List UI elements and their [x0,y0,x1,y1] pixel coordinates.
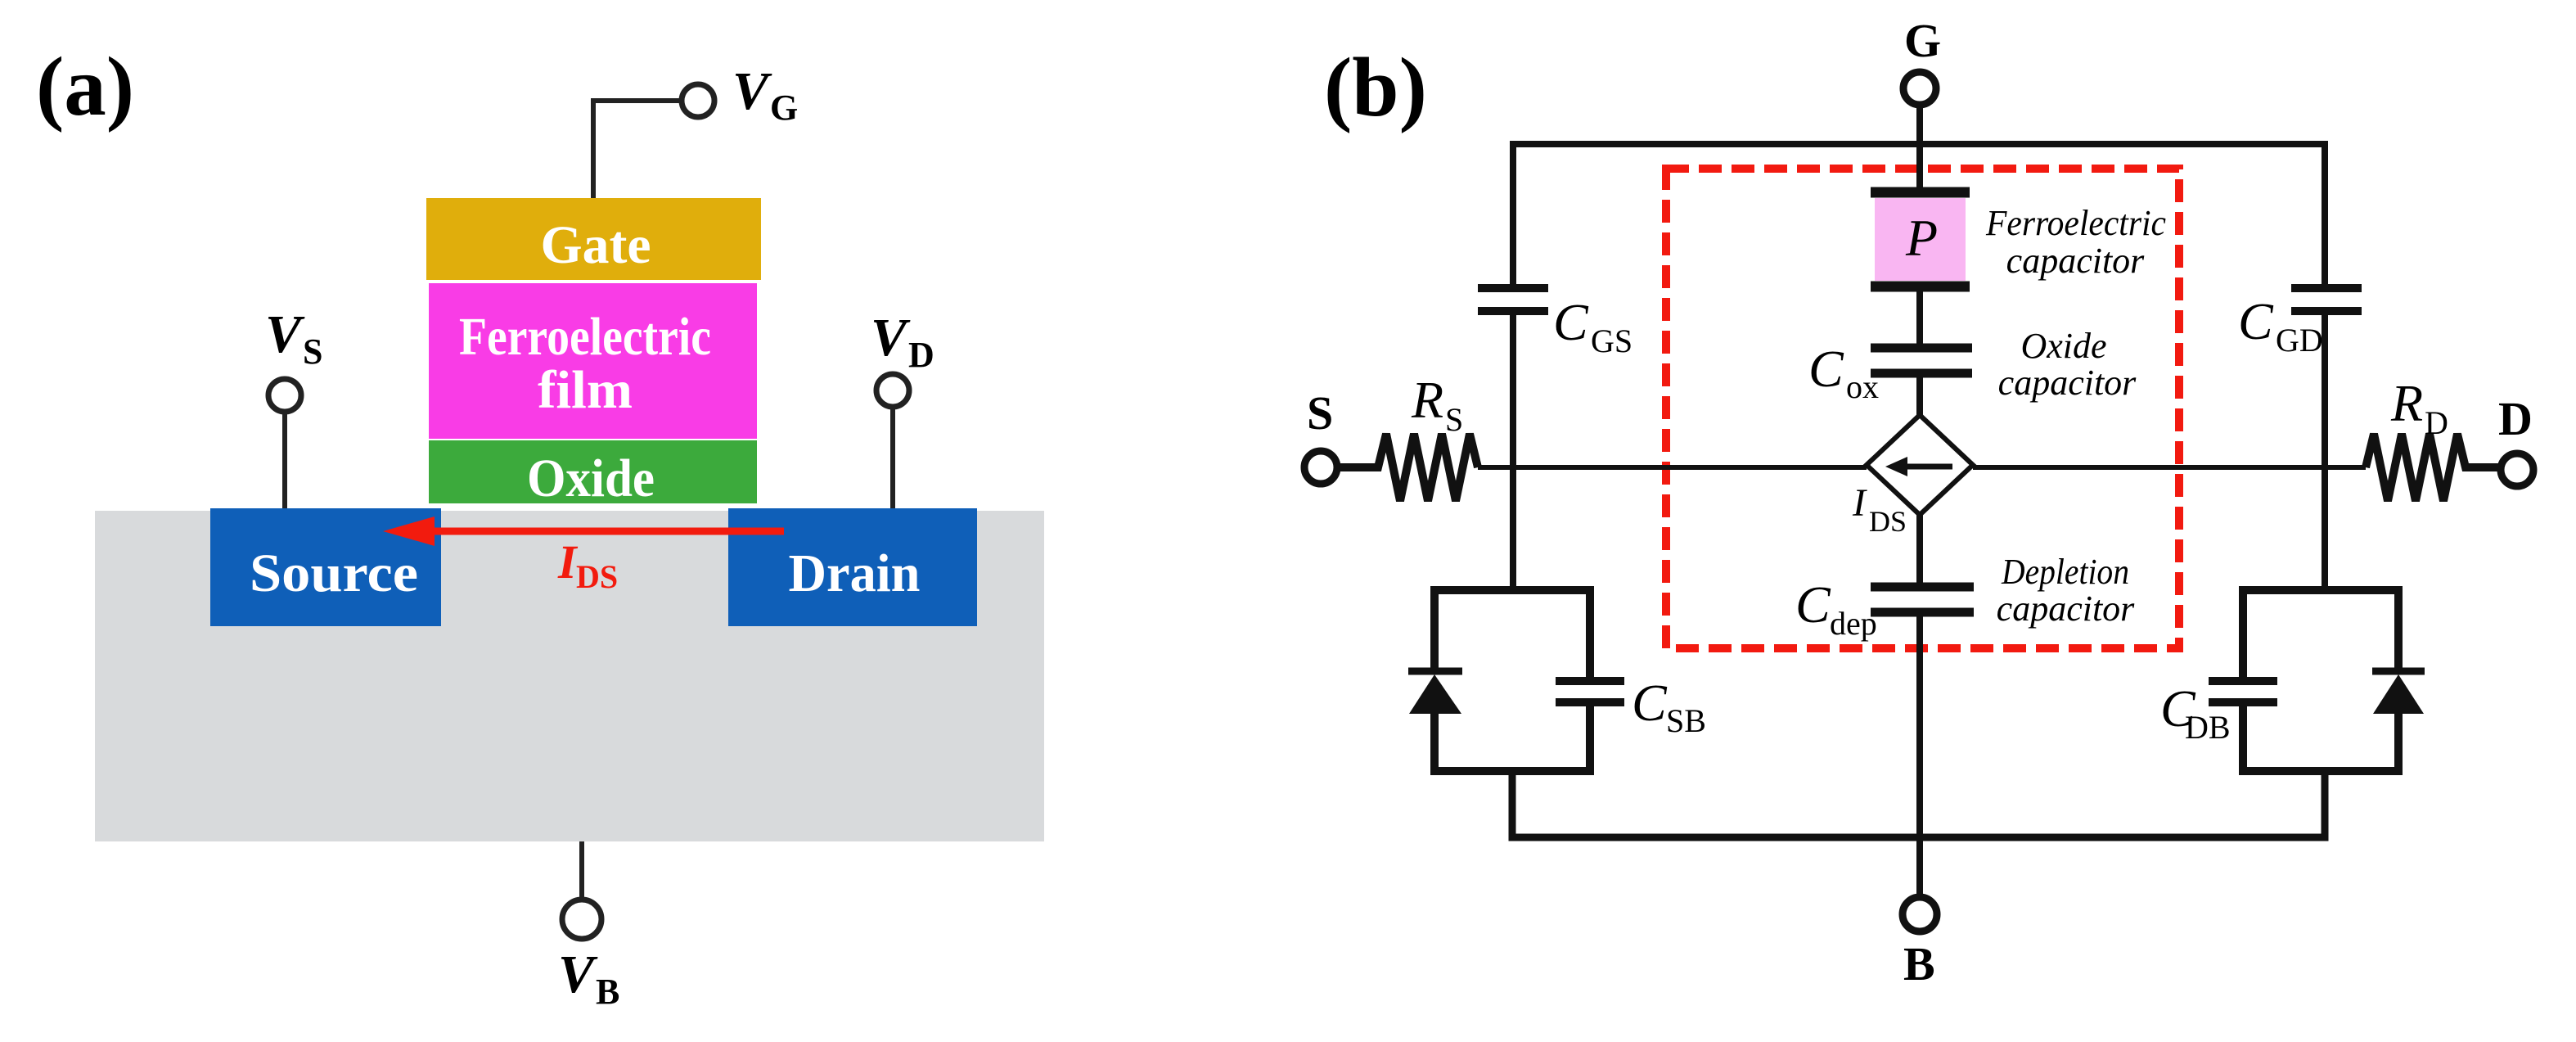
DB block outline [2243,590,2398,771]
ferroelectric capacitor plates [1871,192,1970,286]
wire top rail [1513,144,2325,285]
label Ferroelectric capacitor [1985,203,2166,281]
svg-text:V: V [871,308,911,368]
drain region [728,508,977,626]
svg-text:B: B [1903,937,1935,990]
label Oxide capacitor [1998,326,2137,403]
svg-text:S: S [1445,401,1463,438]
svg-text:D: D [908,335,934,375]
svg-text:C: C [1632,674,1668,732]
wire VG lead [593,101,682,201]
terminal G [1903,14,1941,105]
svg-text:(a): (a) [36,40,134,133]
svg-text:C: C [1808,340,1844,398]
svg-text:Oxide: Oxide [2020,326,2106,366]
svg-text:ox: ox [1846,368,1879,405]
capacitor Cox [1808,340,1972,405]
svg-text:C: C [1795,575,1831,634]
ferroelectric film layer [429,283,757,439]
svg-text:capacitor: capacitor [1997,589,2136,629]
wire main rail D side [1973,465,2366,470]
capacitor CSB [1556,674,1706,739]
wire VB lead [579,841,584,900]
wire Cdep to bottom rail and B [1916,616,1923,899]
wire left vertical lower [1510,314,1516,591]
svg-text:C: C [1553,293,1589,351]
gate layer [426,198,761,280]
wire VS lead [282,412,287,508]
substrate [95,511,1044,841]
terminal D [2498,392,2533,486]
terminal B [1903,897,1937,990]
svg-text:G: G [770,88,798,128]
wire main rail S side [1478,465,1867,470]
svg-text:V: V [265,304,305,364]
terminal VS [265,304,322,412]
diode SB [1408,671,1462,714]
svg-text:capacitor: capacitor [2006,241,2146,281]
resistor RD [2366,374,2501,501]
oxide layer [429,440,757,508]
resistor RS [1337,371,1478,501]
terminal VG [682,61,798,128]
ferroelectric capacitor P box [1875,198,1966,281]
svg-text:DS: DS [576,558,618,595]
wire G lead [1916,104,1923,192]
svg-text:V: V [558,945,598,1004]
svg-text:dep: dep [1830,605,1877,642]
svg-text:capacitor: capacitor [1998,363,2137,403]
svg-text:DB: DB [2185,709,2231,746]
svg-text:Drain: Drain [789,544,921,603]
svg-text:R: R [1411,371,1443,429]
capacitor CDB [2160,679,2277,746]
terminal S [1304,386,1337,484]
wire right vertical lower [2322,314,2328,590]
svg-text:GD: GD [2276,322,2323,359]
wire bottom rail [1512,770,2325,837]
svg-text:Source: Source [250,544,418,603]
terminal VD [871,308,934,407]
svg-text:Depletion: Depletion [2001,552,2129,592]
svg-text:G: G [1904,14,1941,67]
svg-text:Ferroelectric: Ferroelectric [1985,203,2166,243]
panel label (a) [36,40,134,133]
svg-text:Ferroelectric: Ferroelectric [459,307,711,367]
wire Cox to current source [1916,374,1923,419]
capacitor CGS [1478,288,1633,359]
svg-text:I: I [1852,481,1867,525]
svg-text:R: R [2390,374,2423,432]
red dashed boundary box [1666,169,2179,648]
wire VD lead [890,407,895,508]
current arrow IDS [383,516,784,595]
svg-text:GS: GS [1591,323,1633,359]
svg-text:film: film [538,360,633,420]
svg-text:S: S [1307,386,1333,440]
svg-text:DS: DS [1869,505,1907,538]
svg-text:Gate: Gate [541,215,651,275]
svg-text:V: V [732,61,772,121]
svg-text:D: D [2498,392,2533,445]
panel label (b) [1324,41,1427,134]
svg-text:P: P [1905,209,1938,267]
capacitor Cdep [1795,575,1974,642]
svg-text:Oxide: Oxide [527,449,655,508]
svg-text:(b): (b) [1324,41,1427,134]
label Depletion capacitor [1997,552,2136,629]
svg-text:SB: SB [1666,702,1706,739]
svg-text:D: D [2425,404,2448,441]
wire ferro to Cox [1916,291,1923,344]
current source IDS diamond [1852,415,1973,538]
svg-text:C: C [2238,292,2274,350]
diode DB [2372,671,2425,714]
svg-text:B: B [596,972,619,1012]
source region [210,508,441,626]
SB block outline [1434,590,1590,771]
terminal VB [558,900,619,1012]
svg-text:S: S [303,332,322,372]
wire current source to Cdep [1916,515,1923,584]
capacitor CGD [2238,288,2362,359]
